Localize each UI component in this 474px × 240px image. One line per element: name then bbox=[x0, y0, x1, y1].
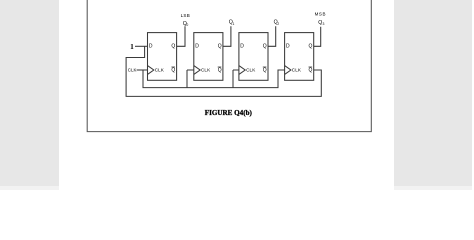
svg-text:CLK: CLK bbox=[246, 67, 256, 72]
svg-text:Q: Q bbox=[309, 44, 313, 50]
svg-text:Q: Q bbox=[171, 44, 175, 50]
svg-text:FIGURE Q4(b): FIGURE Q4(b) bbox=[205, 109, 253, 117]
svg-text:D: D bbox=[195, 44, 199, 50]
svg-text:3: 3 bbox=[323, 22, 325, 26]
svg-text:1: 1 bbox=[130, 42, 134, 51]
svg-text:2: 2 bbox=[277, 22, 279, 26]
svg-text:D: D bbox=[240, 44, 244, 50]
svg-text:LSB: LSB bbox=[181, 13, 190, 18]
svg-text:Q: Q bbox=[171, 68, 175, 74]
svg-text:Q: Q bbox=[263, 44, 267, 50]
svg-text:Q: Q bbox=[218, 44, 222, 50]
svg-text:CLK: CLK bbox=[292, 67, 302, 72]
svg-text:Q: Q bbox=[218, 68, 222, 74]
svg-text:D: D bbox=[149, 44, 153, 50]
svg-text:CLK: CLK bbox=[201, 67, 211, 72]
svg-text:CLK: CLK bbox=[155, 67, 165, 72]
svg-text:Q: Q bbox=[263, 68, 267, 74]
svg-text:Q: Q bbox=[309, 68, 313, 74]
svg-text:D: D bbox=[286, 44, 290, 50]
svg-text:1: 1 bbox=[233, 22, 235, 26]
svg-text:MSB: MSB bbox=[315, 12, 326, 17]
svg-text:0: 0 bbox=[186, 23, 188, 27]
svg-text:CLK: CLK bbox=[128, 68, 137, 73]
